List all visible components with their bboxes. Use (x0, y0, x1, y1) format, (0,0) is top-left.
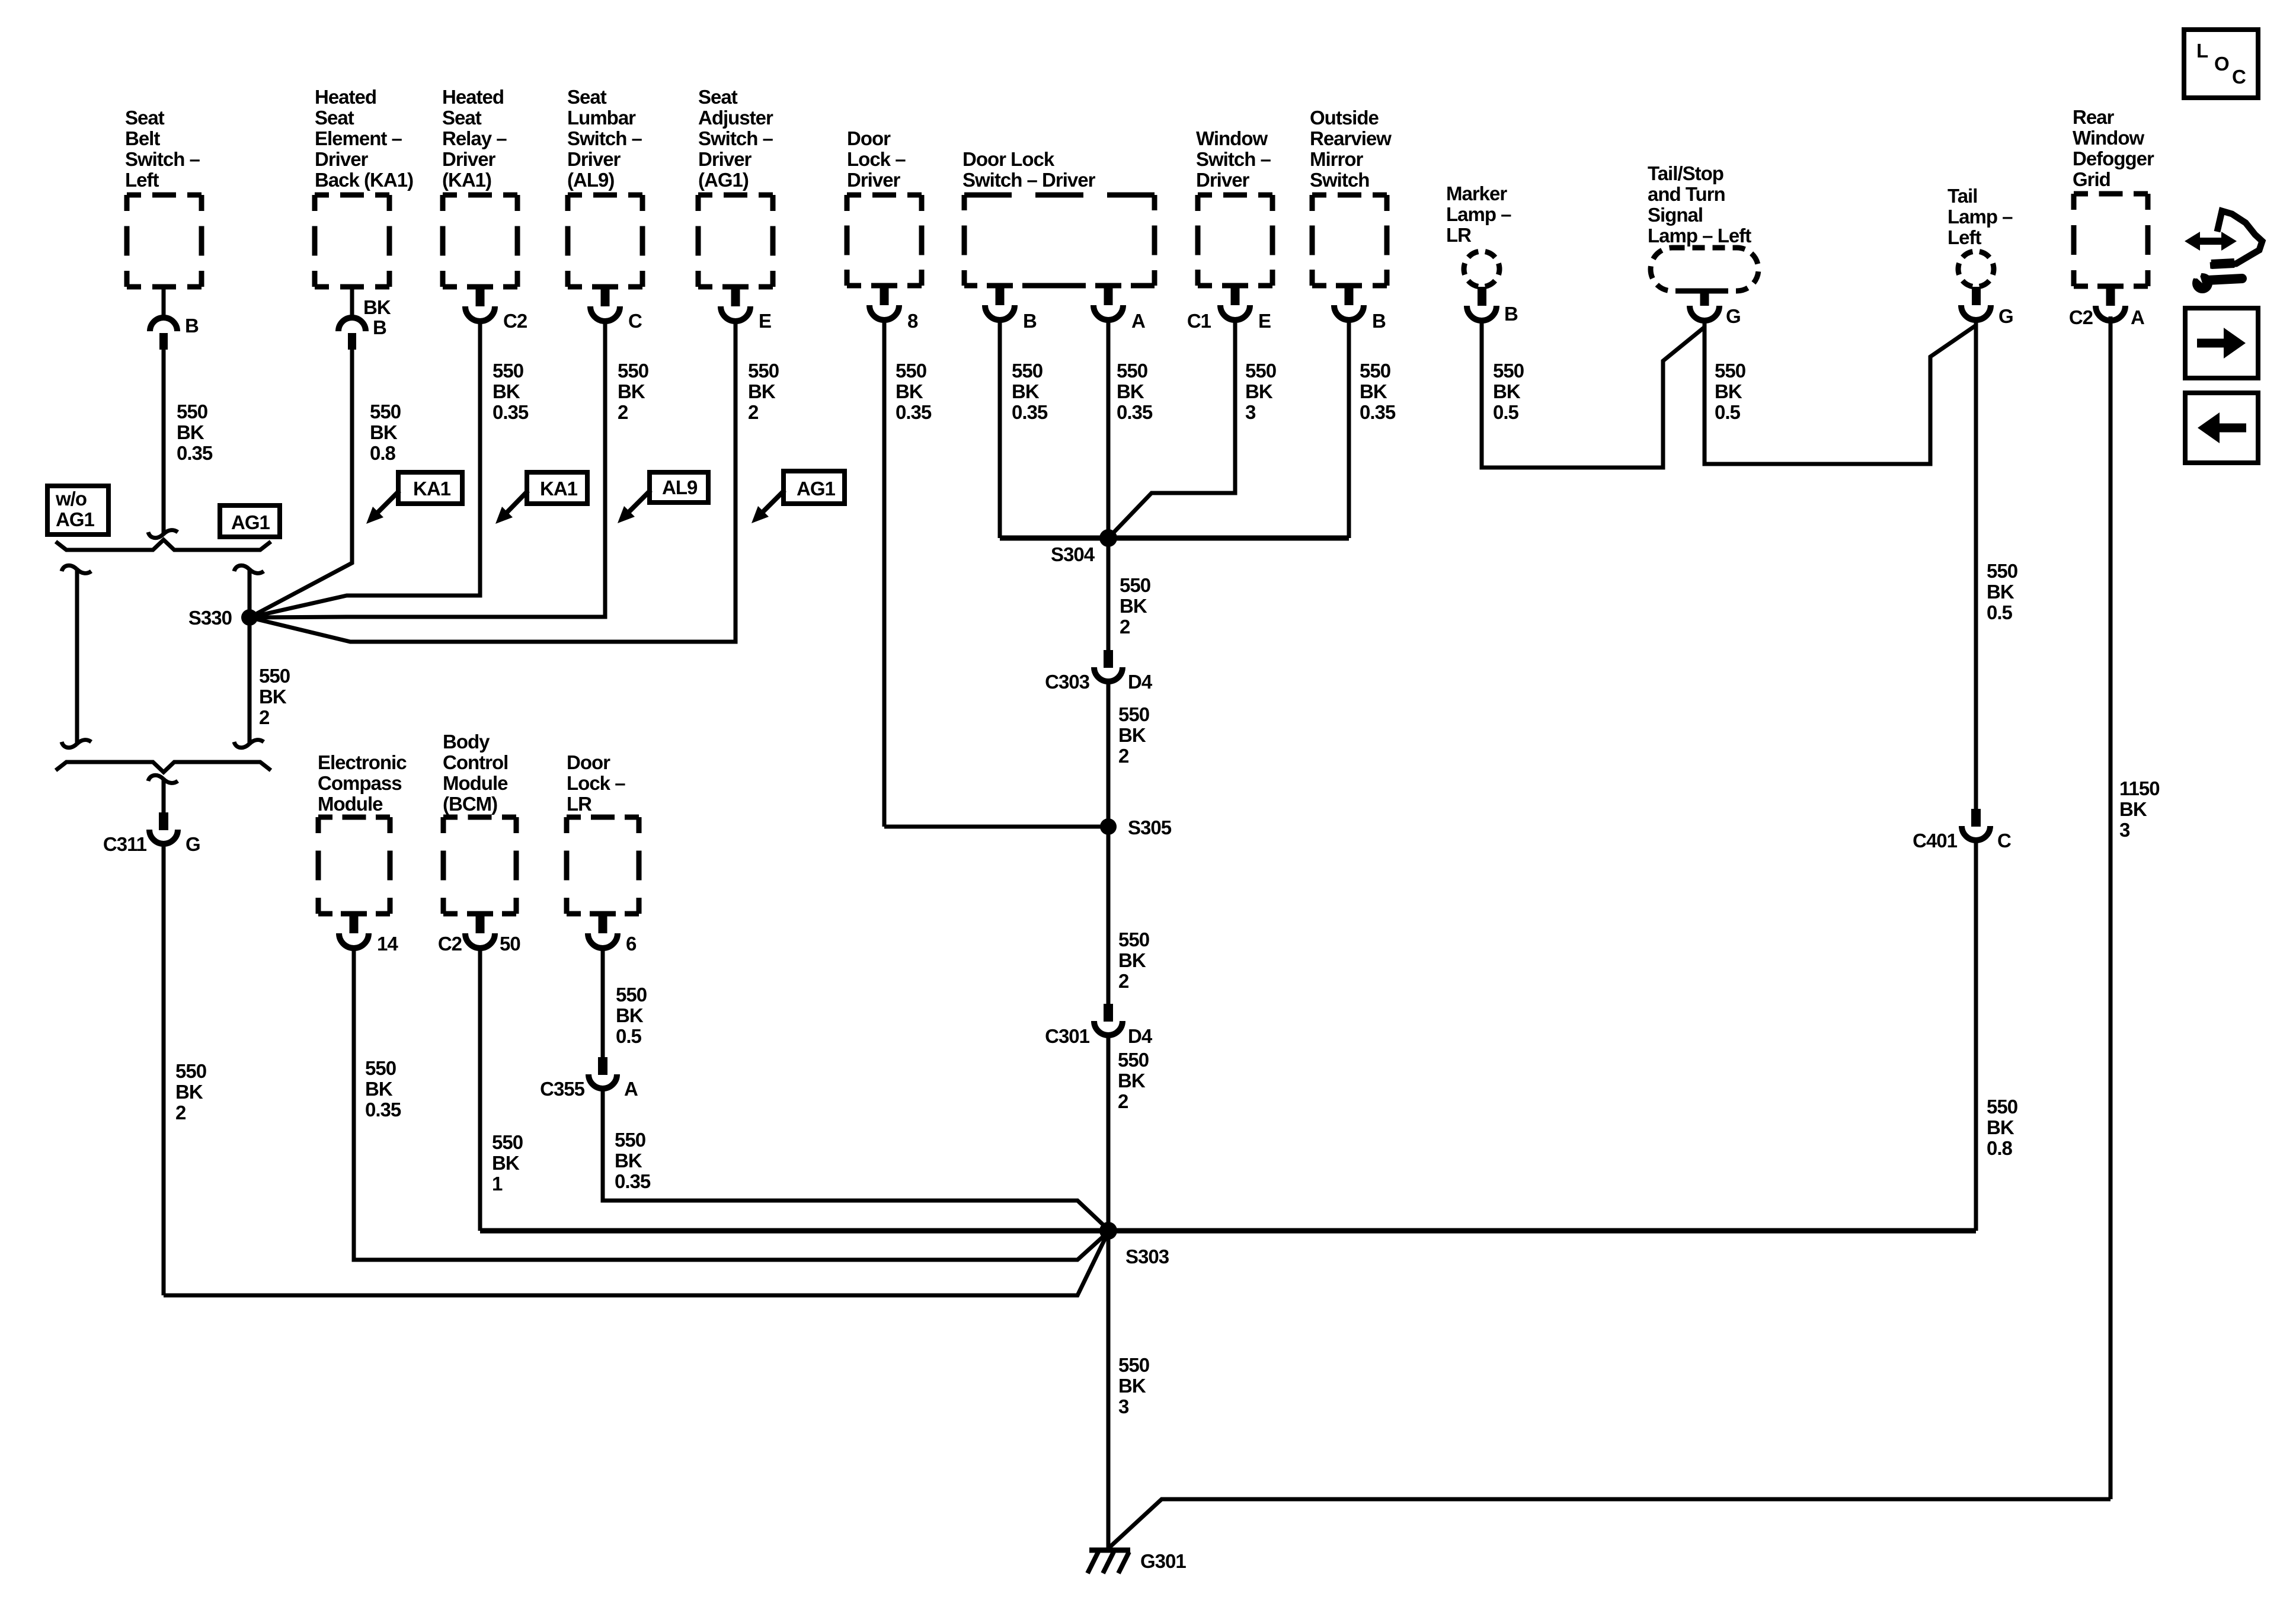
svg-text:G301: G301 (1140, 1550, 1186, 1572)
wire marker lamp to tail/stop lamp (1482, 321, 1705, 468)
connector pin B Door Lock Switch (987, 283, 1013, 289)
hook top AG1 path (234, 565, 264, 573)
connector pin 14 Electronic Compass Module (341, 911, 367, 917)
component box Electronic Compass Module (318, 817, 390, 914)
component box Door Lock - Driver (847, 195, 922, 286)
component box Body Control Module (443, 817, 516, 914)
hook bottom w/o AG1 path (62, 740, 91, 748)
svg-text:C2: C2 (2069, 306, 2093, 328)
callout arrow AG1 (762, 490, 785, 513)
svg-text:14: 14 (377, 933, 398, 955)
svg-text:C301: C301 (1045, 1025, 1090, 1047)
svg-text:AL9: AL9 (662, 476, 698, 498)
connector C2 pin 50 BCM (467, 911, 493, 917)
svg-text:G: G (186, 833, 200, 855)
component box Outside Rearview Mirror Switch (1312, 195, 1387, 286)
arrow right (2197, 339, 2224, 348)
option brace bottom (56, 762, 271, 772)
wire heated seat relay to S330 (250, 321, 480, 617)
connector pin B Heated Seat Element (350, 287, 354, 318)
icon box arrow right (continued) (2185, 308, 2258, 378)
svg-text:G: G (1726, 305, 1741, 327)
component box Rear Window Defogger Grid (2074, 194, 2148, 286)
connector pin G Tail/Stop Lamp (1687, 289, 1722, 294)
connector C301 pin D4 (1104, 1004, 1113, 1022)
svg-text:B: B (1504, 303, 1518, 325)
wire S304 to C303 (1107, 538, 1111, 650)
svg-text:C: C (1997, 830, 2011, 852)
wire door lock switch A to S304 (1107, 321, 1111, 536)
callout box KA1 (527, 472, 587, 504)
svg-text:S330: S330 (188, 607, 232, 629)
callout box AL9 (650, 472, 708, 502)
wire seat adjuster to S330 (250, 321, 736, 642)
svg-text:AG1: AG1 (56, 508, 95, 530)
wire option path w/o AG1 (75, 570, 79, 743)
component box Seat Adjuster Switch - Driver (698, 195, 773, 287)
svg-text:B: B (1372, 310, 1386, 332)
svg-text:C2: C2 (438, 933, 462, 955)
connector C1 pin E Window Switch (1222, 283, 1248, 289)
wire door lock LR to C355 (601, 949, 605, 1057)
wire BCM down (478, 949, 482, 1231)
option box w/o AG1 (47, 486, 108, 534)
component circle Tail Lamp - Left (1958, 251, 1994, 287)
callout arrow KA1 (506, 491, 528, 513)
connector pin B Outside Rearview Mirror Switch (1336, 283, 1362, 289)
svg-text:D4: D4 (1128, 1025, 1153, 1047)
connector C355 pin A (598, 1057, 607, 1075)
connector C311 pin G (159, 812, 168, 830)
svg-text:L: L (2196, 40, 2208, 62)
svg-text:C: C (628, 310, 642, 332)
svg-text:8: 8 (907, 310, 918, 332)
svg-text:A: A (1131, 310, 1145, 332)
connector pin 8 Door Lock - Driver (871, 283, 897, 289)
component box Seat Belt Switch - Left (127, 195, 202, 287)
wire door lock driver down (882, 321, 887, 827)
wire tail lamp down to C401 (1974, 320, 1978, 809)
icon box arrow left (continued) (2185, 393, 2258, 463)
wire C303 to S305 (1107, 681, 1111, 827)
LOC reference box (2184, 30, 2258, 98)
ground G301 (1089, 1548, 1130, 1553)
option continuation hook seat belt wire end (148, 530, 178, 538)
connector C303 pin D4 (1104, 650, 1113, 668)
svg-text:C311: C311 (103, 833, 147, 855)
wire mirror switch to S304 (1347, 321, 1351, 538)
wire heated seat element to S330 (250, 350, 352, 617)
wire tail/stop lamp to tail lamp (1705, 321, 1976, 464)
wire C301 to S303 (1107, 1035, 1111, 1231)
svg-text:A: A (624, 1078, 638, 1100)
svg-text:B: B (1023, 310, 1037, 332)
svg-text:BK: BK (363, 296, 391, 318)
component box Seat Lumbar Switch - Driver (568, 195, 642, 287)
svg-text:KA1: KA1 (413, 478, 451, 500)
component box Door Lock - LR (567, 817, 639, 914)
callout arrow AL9 (628, 490, 651, 513)
icon adjustable component (double arrow, part outline, wrench) (2193, 238, 2228, 245)
svg-text:AG1: AG1 (231, 511, 270, 533)
connector pin B Marker Lamp (1478, 287, 1486, 306)
arrow left (2220, 424, 2246, 433)
connector C2 pin A Rear Window Defogger Grid (2097, 284, 2124, 289)
hook top w/o AG1 path (62, 565, 91, 573)
wire S303 bus (480, 1228, 1976, 1234)
svg-text:50: 50 (500, 933, 520, 955)
component box Heated Seat Element - Driver Back (315, 195, 389, 287)
svg-text:S304: S304 (1051, 543, 1095, 565)
wire brace to C311 (162, 780, 166, 812)
option box AG1 (220, 505, 280, 537)
callout arrow KA1 (377, 491, 399, 513)
splice S330 (241, 609, 258, 626)
svg-text:B: B (185, 315, 199, 337)
svg-text:6: 6 (626, 933, 637, 955)
svg-text:C401: C401 (1913, 830, 1958, 852)
component box Door Lock Switch - Driver (964, 195, 1155, 286)
wire door lock driver to S305 (884, 825, 1108, 829)
svg-text:E: E (1258, 310, 1271, 332)
wire seat belt to option brace (162, 350, 166, 533)
wire C311 branch to S303 (164, 1232, 1108, 1295)
svg-text:A: A (2131, 306, 2144, 328)
svg-text:E: E (759, 310, 771, 332)
hook below bottom brace (148, 775, 178, 783)
svg-text:C355: C355 (540, 1078, 585, 1100)
connector pin 6 Door Lock - LR (590, 911, 616, 917)
splice S304 (1099, 529, 1117, 547)
component circle Marker Lamp - LR (1464, 251, 1499, 287)
svg-text:C1: C1 (1187, 310, 1211, 332)
svg-text:S305: S305 (1128, 817, 1172, 838)
hook bottom AG1 path (234, 740, 264, 748)
connector pin G Tail Lamp (1972, 287, 1981, 305)
svg-text:S303: S303 (1125, 1246, 1169, 1267)
wire S305 to C301 (1107, 827, 1111, 1004)
component box Window Switch - Driver (1198, 195, 1272, 286)
connector C401 pin C (1971, 809, 1981, 827)
callout box AG1 (784, 471, 845, 504)
component stadium Tail/Stop and Turn Signal Lamp - Left (1651, 248, 1758, 291)
component box Heated Seat Relay - Driver (443, 195, 517, 287)
svg-text:C: C (2232, 66, 2246, 88)
connector pin E Seat Adjuster Switch (722, 284, 749, 290)
wire door lock switch B down (998, 321, 1002, 538)
svg-text:B: B (373, 316, 386, 338)
wire window switch to S304 (1108, 321, 1235, 538)
svg-text:w/o: w/o (55, 488, 87, 510)
option brace top (w/o AG1 | AG1) (56, 540, 271, 550)
svg-text:AG1: AG1 (797, 478, 836, 500)
splice S305 (1100, 818, 1117, 835)
wire compass branch to S303 (354, 949, 1108, 1260)
wire C401 to S303 bus (1974, 840, 1978, 1231)
splice S303 (1099, 1222, 1117, 1240)
svg-text:C303: C303 (1045, 671, 1090, 693)
wire S303 to G301 (1107, 1231, 1111, 1550)
wire S304 bus (1000, 536, 1349, 541)
connector C2 Heated Seat Relay (467, 284, 493, 290)
connector pin A Door Lock Switch (1095, 283, 1121, 289)
svg-text:O: O (2214, 53, 2229, 75)
wire defogger to G301 (1108, 1499, 2110, 1549)
wire option path AG1 through S330 (248, 570, 252, 743)
wire C311 down to S303 branch (162, 844, 166, 1295)
connector pin C Seat Lumbar Switch (592, 284, 618, 290)
connector pin B Seat Belt Switch (162, 287, 166, 318)
svg-text:D4: D4 (1128, 671, 1153, 693)
wire rear window defogger down (2109, 316, 2113, 1499)
wire seat lumbar to S330 (250, 321, 605, 617)
svg-text:KA1: KA1 (540, 478, 578, 500)
callout box KA1 (398, 472, 462, 504)
wire C355 branch to S303 (603, 1089, 1108, 1230)
svg-text:C2: C2 (503, 310, 527, 332)
svg-text:G: G (1998, 305, 2013, 327)
